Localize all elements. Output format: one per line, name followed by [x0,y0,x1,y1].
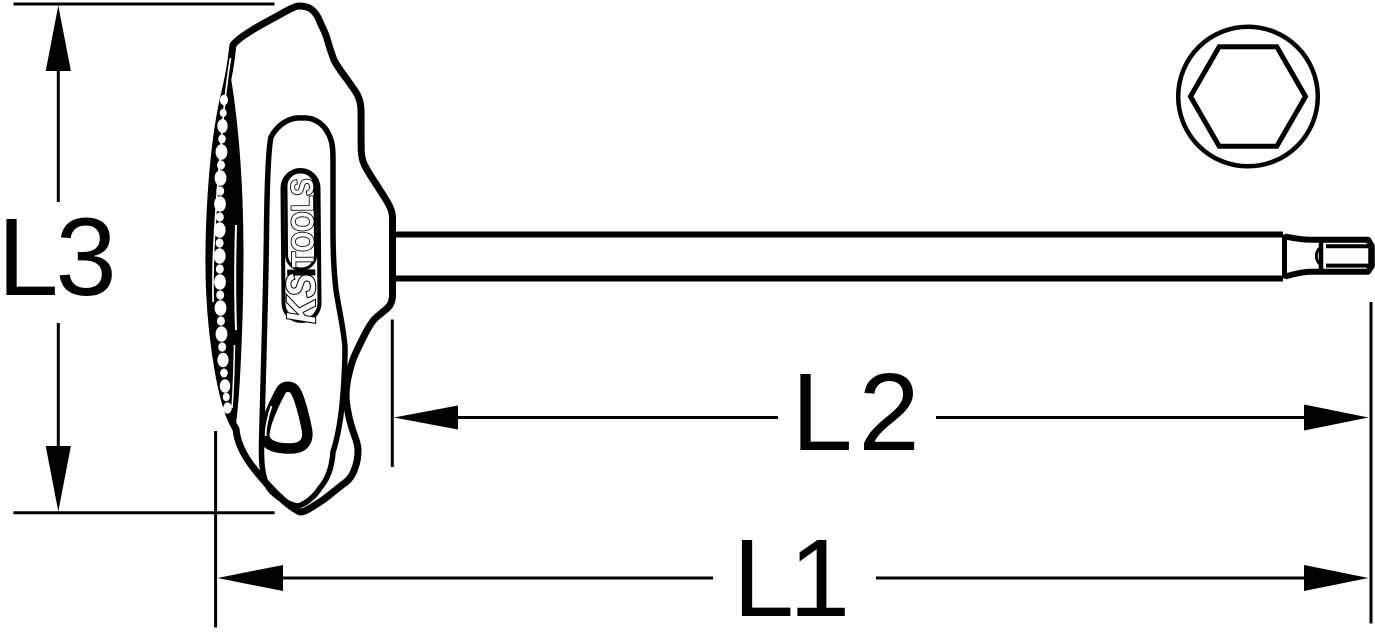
lens rib dots [214,95,232,414]
dimension L3 top extension line [14,3,275,6]
hex tip facet lines [1326,246,1370,265]
hex tip body [1310,240,1372,272]
handle inner grip slot [261,118,345,506]
dimension L1 arrow right [1304,565,1369,591]
lens top sliver [213,58,231,302]
lens lower streak [232,345,235,408]
grip end cap lens [208,70,244,427]
hanging hole [264,387,307,449]
dimension L2 arrow right [1304,405,1369,431]
dimension L2 left extension line [391,320,394,468]
hex tip left vertical line [1319,242,1324,269]
dimension L3 vertical line [57,66,60,450]
svg-text:L3: L3 [0,196,114,319]
hex cross-section hexagon [1191,47,1306,147]
shaft outline [393,235,1283,279]
dimension L1 arrow left [218,565,284,591]
dimension L1 left extension line [214,431,217,628]
shaft end line [1282,235,1287,279]
dimension L3 arrow down [46,446,71,512]
KS TOOLS logo [282,170,319,323]
dimension L1 line [280,577,1307,580]
hex tip transition arc [1316,247,1321,265]
dimension L3 arrow up [46,6,71,72]
dimension L2 line [455,416,1307,419]
svg-text:L2: L2 [791,351,925,474]
dimension L2 arrow left [394,406,458,430]
dimension L3 bottom extension line [14,511,275,514]
hanging hole highlight [266,406,272,436]
dimension L2/L1 right extension line [1370,302,1373,624]
hex cross-section circle [1178,27,1318,167]
handle outer contour [209,6,393,512]
tip neck [1285,237,1310,277]
svg-text:L1: L1 [733,517,845,640]
hex tip end face [1368,244,1374,269]
lens highlight streak [234,225,237,330]
